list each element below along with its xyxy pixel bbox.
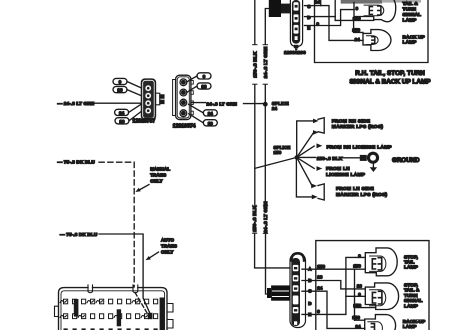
wire pin C 24 net [302,291,365,328]
callout pill 24 [189,104,218,116]
tick [263,83,267,85]
wire 150 feed from top [334,0,336,20]
svg-text:24: 24 [355,37,361,42]
svg-text:24-.8 LT GRN: 24-.8 LT GRN [207,102,238,107]
svg-text:LAMP: LAMP [403,17,418,23]
svg-text:LAMP: LAMP [404,303,419,309]
bracket RH side marker [318,118,324,134]
svg-text:150: 150 [353,303,361,308]
svg-text:24: 24 [119,111,125,116]
svg-text:9: 9 [358,292,361,297]
ring terminal [360,152,379,164]
wire 150 BLK vertical lower segment to pin A [255,234,290,268]
wire splice150 to RH license lamp [297,146,315,157]
svg-text:19: 19 [208,121,214,126]
svg-text:9: 9 [317,309,320,314]
svg-text:19: 19 [119,119,125,124]
wire manual trans dashed [99,162,134,287]
svg-text:ONLY: ONLY [161,249,174,254]
svg-text:TURN: TURN [403,6,417,12]
svg-text:FROM LH: FROM LH [326,166,350,172]
svg-text:150: 150 [317,264,325,269]
svg-text:150: 150 [274,150,282,155]
svg-text:12068200: 12068200 [284,50,306,55]
wire 24 net to back-up lamp [315,6,364,41]
svg-text:LAMP: LAMP [404,265,419,271]
connector C100 notch 1 [88,285,93,293]
tick [263,44,267,46]
svg-text:150-.8 BLK: 150-.8 BLK [317,156,343,161]
tick [253,44,257,46]
svg-text:150: 150 [352,315,360,320]
svg-text:MARKER LPS (ROS): MARKER LPS (ROS) [332,124,384,130]
L.H. lamp assembly box [316,241,429,330]
svg-text:12015797: 12015797 [133,119,156,125]
connector J2 12015797 body [141,79,155,120]
connector C100 pin field [64,299,158,318]
svg-text:24: 24 [317,286,323,291]
bulb back up lamp [363,30,391,51]
svg-text:BACK UP: BACK UP [403,34,426,40]
tick [253,83,257,85]
svg-text:SIGNAL: SIGNAL [403,12,421,18]
connector C100 terminal bars [74,298,165,330]
svg-text:SIGNAL: SIGNAL [404,298,422,304]
bulb tail &amp; turn signal lamp (cut top) [354,0,396,21]
svg-text:— 75-.8 DK BLU: — 75-.8 DK BLU [60,232,98,237]
tick [252,232,256,234]
svg-text:SIGNAL & BACK UP LAMP: SIGNAL & BACK UP LAMP [349,78,431,85]
wire 24 LT GRN top corner to block [265,9,269,45]
callout pill 9 [113,78,141,88]
svg-text:R.H. TAIL, STOP, TURN: R.H. TAIL, STOP, TURN [355,70,425,77]
wire splice150 riser to RH side marker bracket [297,121,314,157]
svg-text:LICENSE LAMP: LICENSE LAMP [326,172,366,178]
svg-text:24: 24 [272,106,278,111]
svg-text:AUTO: AUTO [161,237,174,242]
svg-text:12010974: 12010974 [173,123,196,129]
svg-text:150: 150 [353,263,361,268]
wire manual trans dashed into pin [135,293,147,313]
svg-text:FROM RH LICENSE LAMP: FROM RH LICENSE LAMP [327,144,393,150]
arrow to dashed wire [140,185,150,190]
wire auto trans solid [99,234,150,314]
svg-text:LAMP: LAMP [403,324,418,330]
svg-text:18: 18 [317,275,323,280]
connector C200 mounting block [267,285,290,300]
wire 24 LT GRN mid segment [264,85,266,206]
svg-text:STOP,: STOP, [404,254,419,260]
svg-text:— 75-.8 DK BLU: — 75-.8 DK BLU [58,160,96,165]
connector C100 side tabs [167,304,173,313]
wire 150 BLK vertical mid segment [254,85,256,206]
svg-text:24: 24 [315,0,321,4]
wire splice150 to LH side marker bracket arm1 [297,157,312,185]
wire splice150 to LH side marker bracket arm2 [296,157,312,197]
svg-text:9: 9 [317,21,320,26]
wire pin D to box [305,16,315,18]
R.H. lamp assembly box [315,0,429,63]
connector 12015797 tab [156,93,165,105]
svg-text:FROM LH SIDE: FROM LH SIDE [336,186,374,192]
svg-text:150-.8 BLK: 150-.8 BLK [252,51,258,78]
svg-text:18: 18 [201,84,207,89]
bracket LH side marker [318,184,324,200]
svg-text:ONLY: ONLY [150,179,163,184]
svg-text:24: 24 [355,324,361,329]
tick [263,205,267,207]
wire 9 net pin E to tail lamp [315,10,355,26]
connector U1 12068200 body [290,0,302,50]
wire pin A 150 net [302,268,365,270]
callout pill 9 [187,73,211,82]
svg-text:18: 18 [117,88,123,93]
tick [263,232,267,234]
svg-text:9: 9 [358,253,361,258]
svg-text:FROM RH SIDE: FROM RH SIDE [332,118,371,124]
bulb back-up lamp (cut bottom) [365,315,396,330]
svg-text:9: 9 [119,80,122,85]
svg-text:TAIL: TAIL [404,260,415,266]
wire splice150 to ground with label 150-.8 BLK [297,156,316,158]
connector C100 bulkhead body [59,288,168,330]
svg-text:TAIL &: TAIL & [404,288,420,294]
svg-text:GROUND: GROUND [392,157,420,164]
wire to connector 12015797 [94,102,142,104]
svg-text:24: 24 [208,111,214,116]
svg-text:MANUAL: MANUAL [150,167,170,172]
svg-text:9: 9 [203,74,206,79]
splice 150 junction [295,155,299,159]
wire splice150 to 150 BLK vertical [255,157,297,168]
wire pin3 to splice 24 with label [191,102,206,104]
callout pill 24 [115,104,142,116]
callout pill 18 [113,87,141,96]
wire splice150 to LH license lamp [297,157,315,168]
tick [252,205,256,207]
svg-text:150-.8 BLK: 150-.8 BLK [252,205,258,232]
wire 150 branch to back-up lamp [354,20,363,32]
connector C100 notch 2 [133,285,138,293]
callout pill 19 [115,111,141,124]
svg-text:150: 150 [352,28,360,33]
callout pill 18 [188,83,212,92]
svg-text:24-.8 LT GRN: 24-.8 LT GRN [263,46,269,78]
wire 150 net pin D to tail lamp [315,17,374,21]
svg-text:— 24-.8 LT GRN: — 24-.8 LT GRN [58,101,95,106]
wire pin E 9 net [302,257,365,314]
bulb stop tail lamp [365,248,397,276]
wire splice150 to bracket lower arm [297,133,314,158]
svg-text:24-.8 LT GRN: 24-.8 LT GRN [263,201,269,233]
ground arrow [372,164,374,167]
svg-text:LAMP: LAMP [403,40,418,46]
svg-text:18: 18 [357,283,363,288]
arrow to solid wire [150,252,159,258]
callout pill 19 [189,114,218,126]
bulb stop tail turn signal lamp [365,283,398,310]
svg-text:9: 9 [356,6,359,11]
svg-text:MARKER LPS (ROS): MARKER LPS (ROS) [336,192,388,198]
wire pin C to box [305,5,315,7]
wire pin E to box [305,25,315,27]
wire 24 feed from top [320,0,322,6]
wire 150 BLK vertical upper segment [254,0,256,44]
svg-text:TRANS: TRANS [161,243,177,248]
wire 24 LT GRN lower segment to block [266,234,272,294]
svg-text:TAIL &: TAIL & [403,1,419,7]
splice 24 junction dot [263,102,268,107]
svg-text:TURN: TURN [404,293,418,299]
connector 12068200 mounting block [269,0,291,17]
connector C200 rear harness body [290,253,306,327]
connector J3 12010974 body [173,75,194,119]
grey band (cut-off element) [341,0,383,4]
svg-text:TRANS: TRANS [150,173,166,178]
wire pin B 18 net [302,281,365,289]
